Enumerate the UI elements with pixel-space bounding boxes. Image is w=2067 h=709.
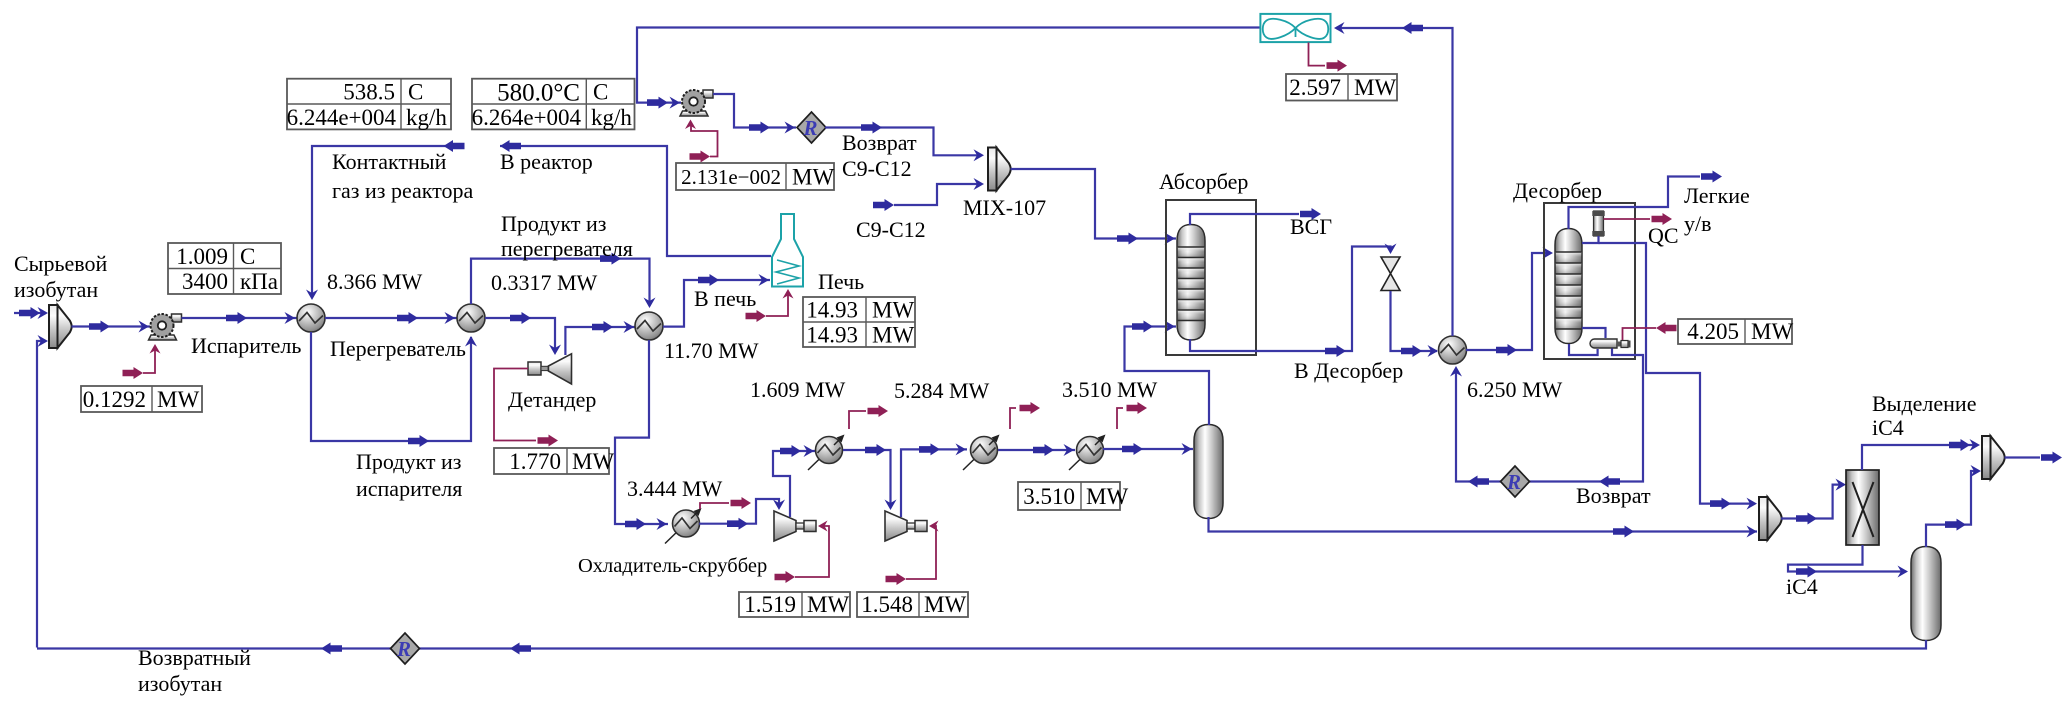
svg-text:11.70 MW: 11.70 MW bbox=[664, 338, 759, 363]
svg-text:MW: MW bbox=[1354, 75, 1396, 100]
wire exchanger to desorber feed bbox=[1466, 247, 1553, 356]
svg-text:14.93: 14.93 bbox=[806, 298, 858, 323]
label Продукт из перегревателя bbox=[501, 211, 633, 261]
table 1.770 MW bbox=[494, 448, 614, 474]
energy stream 4.205 MW into reboiler bbox=[1623, 322, 1677, 340]
svg-text:1.609 MW: 1.609 MW bbox=[750, 377, 846, 402]
compressor K-1 bbox=[774, 511, 816, 541]
table 0.1292 MW bbox=[81, 386, 202, 412]
valve VLV-100 bbox=[1381, 257, 1400, 291]
recycle operation R C9-C12 bbox=[797, 112, 826, 143]
svg-text:MW: MW bbox=[572, 449, 614, 474]
svg-text:Возврат: Возврат bbox=[842, 130, 917, 155]
svg-text:MW: MW bbox=[792, 165, 834, 190]
condenser drum bbox=[1592, 211, 1604, 236]
mixer before iC4 recovery bbox=[1759, 497, 1782, 540]
energy stream 1.519 MW into compressor K-1 bbox=[775, 521, 830, 584]
label Сырьевой изобутан bbox=[14, 251, 107, 302]
cooler Охладитель-скруббер 3.444 MW bbox=[665, 508, 702, 544]
svg-text:1.770: 1.770 bbox=[509, 449, 561, 474]
wire pump to vaporizer bbox=[182, 312, 298, 324]
table 4.205 MW bbox=[1678, 319, 1793, 344]
mixer MIX-100 feed bbox=[49, 305, 72, 348]
label Возвратный изобутан bbox=[138, 645, 251, 696]
svg-text:газ из реактора: газ из реактора bbox=[332, 178, 473, 203]
wire drum bottoms return isobutane bbox=[37, 640, 1926, 655]
absorber column bbox=[1177, 225, 1205, 341]
table 14.93 MW / 14.93 MW bbox=[803, 297, 915, 348]
svg-text:iC4: iC4 bbox=[1786, 574, 1818, 599]
table 3.510 MW bbox=[1018, 482, 1128, 510]
svg-text:6.244e+004: 6.244e+004 bbox=[287, 105, 397, 130]
absorber boundary box bbox=[1166, 200, 1256, 355]
wire superheater to expander bbox=[485, 312, 561, 355]
heat exchanger vaporizer 8.366 MW bbox=[297, 304, 325, 332]
svg-text:kg/h: kg/h bbox=[406, 105, 447, 130]
svg-text:кПа: кПа bbox=[240, 269, 278, 294]
expander Детандер bbox=[528, 354, 572, 384]
wire C9-C12 feed to mixer MIX-107 bbox=[873, 178, 984, 211]
svg-text:Абсорбер: Абсорбер bbox=[1159, 169, 1248, 194]
svg-text:Десорбер: Десорбер bbox=[1513, 178, 1602, 203]
energy stream 1.770 MW from expander bbox=[494, 369, 558, 447]
energy stream from cooler 1.609 MW bbox=[849, 405, 888, 429]
reboiler bbox=[1590, 339, 1631, 348]
label Возврат C9-C12 bbox=[842, 130, 917, 181]
energy stream 2.131e-002 MW into pump bbox=[685, 120, 718, 163]
svg-text:MW: MW bbox=[1751, 319, 1793, 344]
recycle operation R desorber bottoms bbox=[1501, 466, 1530, 497]
energy stream from cooler 5.284 MW bbox=[1010, 402, 1040, 429]
svg-text:В реактор: В реактор bbox=[500, 149, 593, 174]
energy stream 2.597 MW from air cooler bbox=[1309, 43, 1348, 72]
svg-text:MIX-107: MIX-107 bbox=[963, 195, 1046, 220]
label Выделение iC4 bbox=[1872, 391, 1976, 440]
furnace Печь bbox=[772, 214, 803, 287]
svg-text:2.131e−002: 2.131e−002 bbox=[681, 165, 781, 189]
svg-text:Выделение: Выделение bbox=[1872, 391, 1976, 416]
svg-text:Возврат: Возврат bbox=[1576, 483, 1651, 508]
svg-text:538.5: 538.5 bbox=[343, 80, 395, 105]
svg-text:Охладитель-скруббер: Охладитель-скруббер bbox=[578, 555, 767, 577]
svg-text:Испаритель: Испаритель bbox=[191, 333, 301, 358]
svg-text:изобутан: изобутан bbox=[138, 671, 222, 696]
wire scrubber cooler to compressor K-1 bbox=[699, 499, 785, 530]
svg-text:C: C bbox=[240, 244, 255, 269]
heat exchanger 6.250 MW bbox=[1439, 336, 1467, 364]
svg-text:Продукт из: Продукт из bbox=[356, 449, 461, 474]
wire splitter overhead to product mixer bbox=[1862, 439, 1980, 470]
mixer MIX-107 bbox=[988, 148, 1011, 191]
wire MIX-107 to absorber top feed bbox=[1011, 169, 1177, 245]
svg-text:ВСГ: ВСГ bbox=[1290, 214, 1332, 239]
air cooler fan bbox=[1260, 14, 1330, 42]
wire drum top to product mixer bbox=[1926, 465, 1981, 547]
label Контактный газ из реактора bbox=[332, 149, 473, 203]
svg-text:MW: MW bbox=[872, 298, 914, 323]
svg-text:iC4: iC4 bbox=[1872, 415, 1904, 440]
svg-text:3.510: 3.510 bbox=[1023, 484, 1075, 509]
wire contact gas from reactor into vaporizer bbox=[306, 140, 465, 300]
svg-text:Перегреватель: Перегреватель bbox=[330, 336, 466, 361]
wire recycle R to mixer MIX-107 bbox=[825, 122, 984, 162]
svg-text:14.93: 14.93 bbox=[806, 323, 858, 348]
label Продукт из испарителя bbox=[356, 449, 462, 501]
svg-text:испарителя: испарителя bbox=[356, 476, 462, 501]
svg-text:MW: MW bbox=[924, 592, 966, 617]
svg-text:MW: MW bbox=[807, 592, 849, 617]
separator vessel bbox=[1194, 425, 1223, 519]
wire exchanger to furnace В печь bbox=[663, 274, 770, 327]
svg-text:В Десорбер: В Десорбер bbox=[1294, 358, 1403, 383]
svg-text:Печь: Печь bbox=[818, 269, 864, 294]
svg-text:C9-C12: C9-C12 bbox=[842, 156, 912, 181]
wire condenser liquid reflux and distillate bbox=[1582, 236, 1757, 510]
svg-text:1.009: 1.009 bbox=[176, 244, 228, 269]
svg-text:C: C bbox=[593, 80, 608, 105]
wire cooler to compressor K-2 bbox=[843, 444, 897, 510]
wire cooler 3.510 to separator bbox=[1104, 443, 1193, 455]
svg-text:580.0°C: 580.0°C bbox=[497, 80, 580, 107]
svg-text:Возвратный: Возвратный bbox=[138, 645, 251, 670]
energy stream 0.1292 MW into pump bbox=[123, 344, 161, 379]
wire valve to exchanger 6.250 MW bbox=[1391, 291, 1439, 357]
svg-text:3.444 MW: 3.444 MW bbox=[627, 476, 723, 501]
wire superheater product to 11.70 MW exchanger bbox=[471, 253, 656, 308]
wire mixer to pump bbox=[72, 321, 151, 333]
recycle operation R return isobutane bbox=[391, 633, 420, 664]
pump P-100 bbox=[149, 314, 182, 340]
wire exchanger hot outlet down to scrubber cooler bbox=[615, 340, 668, 530]
wire absorber bottoms to valve bbox=[1190, 244, 1397, 358]
svg-text:Продукт из: Продукт из bbox=[501, 211, 606, 236]
table 1.548 MW bbox=[857, 592, 968, 617]
energy stream into furnace bbox=[746, 289, 794, 322]
wire compressor K-2 to cooler 5.284 MW bbox=[901, 443, 967, 517]
pump P-101 bbox=[680, 90, 713, 116]
wire feed isobutane inlet bbox=[14, 307, 48, 319]
heat exchanger 11.70 MW bbox=[635, 312, 663, 340]
svg-text:3400: 3400 bbox=[182, 269, 228, 294]
table 2.597 MW bbox=[1286, 74, 1397, 101]
energy stream QC from condenser bbox=[1604, 213, 1673, 225]
cooler 3.510 MW bbox=[1069, 435, 1106, 471]
table 580.0°C / 6.264e+004 kg/h bbox=[472, 79, 635, 130]
table 538.5 C / 6.244e+004 kg/h bbox=[287, 79, 451, 130]
svg-text:В печь: В печь bbox=[694, 286, 756, 311]
svg-text:перегревателя: перегревателя bbox=[501, 236, 633, 261]
wire desorber bottom to reboiler bbox=[1569, 344, 1598, 355]
svg-text:0.1292: 0.1292 bbox=[83, 387, 146, 412]
wire product out bbox=[2005, 452, 2063, 464]
iC4 drum vessel bbox=[1911, 547, 1941, 641]
svg-text:2.597: 2.597 bbox=[1289, 75, 1341, 100]
table 1.009 C / 3400 кПа bbox=[168, 243, 281, 294]
svg-text:MW: MW bbox=[157, 387, 199, 412]
table 2.131e-002 MW bbox=[676, 163, 834, 190]
svg-text:8.366 MW: 8.366 MW bbox=[327, 269, 423, 294]
wire furnace outlet to reactor bbox=[500, 140, 771, 256]
svg-text:5.284 MW: 5.284 MW bbox=[894, 378, 990, 403]
wire desorber overhead to condenser and light HC out bbox=[1569, 171, 1723, 230]
svg-text:3.510 MW: 3.510 MW bbox=[1062, 377, 1158, 402]
wire separator top gas to absorber bbox=[1125, 321, 1210, 426]
svg-text:изобутан: изобутан bbox=[14, 277, 98, 302]
svg-text:1.548: 1.548 bbox=[861, 592, 913, 617]
wire splitter bottoms iC4 to drum bbox=[1788, 545, 1908, 578]
energy stream from scrubber cooler bbox=[700, 497, 751, 509]
cooler 1.609 MW bbox=[808, 435, 845, 471]
compressor K-2 bbox=[885, 511, 927, 541]
wire cooler 5.284 to cooler 3.510 bbox=[998, 444, 1075, 456]
wire exchanger hot outlet up to air cooler bbox=[1334, 22, 1453, 336]
svg-text:MW: MW bbox=[1086, 484, 1128, 509]
table 1.519 MW bbox=[739, 592, 850, 617]
wire pump to recycle R bbox=[713, 94, 796, 134]
svg-text:Контактный: Контактный bbox=[332, 149, 447, 174]
label Легкие у/в bbox=[1684, 183, 1750, 236]
svg-text:C9-C12: C9-C12 bbox=[856, 217, 926, 242]
svg-text:Детандер: Детандер bbox=[508, 387, 596, 412]
wire recycle gas from air cooler to pump P-101 bbox=[637, 28, 1260, 109]
svg-text:у/в: у/в bbox=[1684, 211, 1712, 236]
svg-text:MW: MW bbox=[872, 323, 914, 348]
wire recycle riser to feed mixer bbox=[37, 335, 48, 648]
desorber boundary box bbox=[1544, 203, 1635, 359]
desorber column bbox=[1555, 229, 1582, 344]
energy stream 1.548 MW into compressor K-2 bbox=[886, 521, 939, 586]
svg-text:6.264e+004: 6.264e+004 bbox=[472, 105, 582, 130]
product mixer bbox=[1982, 436, 2005, 479]
svg-text:1.519: 1.519 bbox=[744, 592, 796, 617]
svg-text:Легкие: Легкие bbox=[1684, 183, 1750, 208]
wire expander to 11.70 MW exchanger bbox=[565, 321, 635, 355]
wire separator bottoms to mixer at iC4 recovery bbox=[1209, 517, 1758, 538]
wire compressor K-1 to cooler 1.609 MW bbox=[773, 445, 815, 517]
svg-text:0.3317 MW: 0.3317 MW bbox=[491, 270, 598, 295]
svg-text:QC: QC bbox=[1648, 223, 1679, 248]
wire absorber overhead ВСГ bbox=[1190, 208, 1321, 225]
svg-text:4.205: 4.205 bbox=[1687, 319, 1739, 344]
heat exchanger superheater 0.3317 MW bbox=[457, 304, 485, 332]
energy stream from cooler 3.510 MW bbox=[1117, 402, 1147, 429]
wire vaporizer product to superheater hot side bbox=[311, 332, 477, 447]
svg-text:6.250 MW: 6.250 MW bbox=[1467, 377, 1563, 402]
wire desorber bottoms recycle Возврат bbox=[1450, 349, 1643, 488]
wire desorber side draw to reboiler bbox=[1582, 328, 1606, 338]
cooler 5.284 MW bbox=[963, 435, 1000, 471]
wire vaporizer to superheater bbox=[325, 312, 457, 324]
component splitter Выделение iC4 bbox=[1846, 470, 1879, 545]
svg-text:C: C bbox=[408, 80, 423, 105]
svg-text:Сырьевой: Сырьевой bbox=[14, 251, 107, 276]
wire mixer to component splitter bbox=[1781, 479, 1846, 525]
svg-text:kg/h: kg/h bbox=[591, 105, 632, 130]
